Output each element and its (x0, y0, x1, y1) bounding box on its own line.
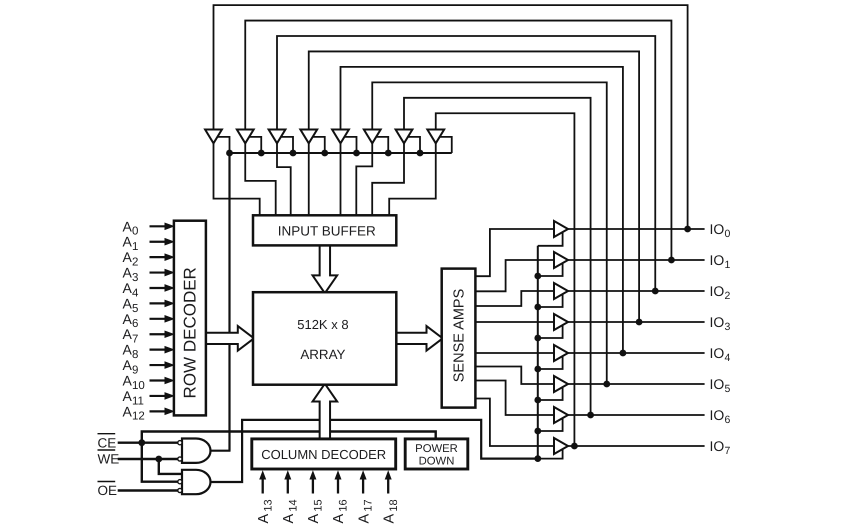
svg-text:A: A (122, 357, 132, 373)
svg-text:A: A (122, 265, 132, 281)
svg-text:11: 11 (132, 395, 144, 407)
svg-text:CE: CE (98, 435, 117, 450)
svg-text:IO: IO (710, 345, 725, 361)
svg-text:1: 1 (132, 241, 138, 253)
svg-text:512K x 8: 512K x 8 (297, 317, 348, 332)
svg-text:ARRAY: ARRAY (300, 347, 345, 362)
svg-text:A: A (122, 311, 132, 327)
svg-text:6: 6 (725, 414, 731, 426)
svg-text:0: 0 (725, 228, 731, 240)
svg-text:3: 3 (132, 272, 138, 284)
svg-text:INPUT BUFFER: INPUT BUFFER (278, 224, 376, 239)
svg-text:IO: IO (710, 376, 725, 392)
svg-text:A: A (122, 388, 132, 404)
svg-text:IO: IO (710, 283, 725, 299)
svg-text:A: A (122, 326, 132, 342)
svg-text:IO: IO (710, 252, 725, 268)
svg-text:A: A (122, 295, 132, 311)
svg-text:8: 8 (132, 349, 138, 361)
svg-text:5: 5 (132, 303, 138, 315)
svg-text:A: A (122, 218, 132, 234)
svg-text:6: 6 (132, 318, 138, 330)
svg-text:DOWN: DOWN (419, 456, 455, 468)
svg-text:A: A (122, 342, 132, 358)
svg-text:IO: IO (710, 407, 725, 423)
svg-text:A: A (122, 234, 132, 250)
svg-text:2: 2 (725, 290, 731, 302)
svg-text:SENSE AMPS: SENSE AMPS (452, 289, 468, 382)
svg-text:7: 7 (725, 445, 731, 457)
svg-text:2: 2 (132, 257, 138, 269)
svg-text:IO: IO (710, 314, 725, 330)
svg-text:4: 4 (725, 352, 731, 364)
svg-text:IO: IO (710, 438, 725, 454)
svg-text:A: A (122, 280, 132, 296)
svg-text:3: 3 (725, 321, 731, 333)
svg-text:COLUMN DECODER: COLUMN DECODER (261, 447, 386, 462)
svg-text:IO: IO (710, 221, 725, 237)
svg-text:7: 7 (132, 334, 138, 346)
svg-text:10: 10 (132, 380, 145, 392)
svg-text:WE: WE (98, 452, 120, 467)
svg-text:0: 0 (132, 226, 138, 238)
svg-text:4: 4 (132, 287, 139, 299)
svg-text:9: 9 (132, 364, 138, 376)
svg-text:A: A (122, 249, 132, 265)
svg-text:12: 12 (132, 411, 145, 423)
svg-text:A: A (122, 403, 132, 419)
svg-text:5: 5 (725, 383, 731, 395)
svg-text:OE: OE (98, 483, 118, 498)
svg-text:1: 1 (725, 259, 731, 271)
svg-text:ROW DECODER: ROW DECODER (180, 267, 199, 398)
svg-text:POWER: POWER (415, 443, 458, 455)
svg-text:A: A (122, 373, 132, 389)
